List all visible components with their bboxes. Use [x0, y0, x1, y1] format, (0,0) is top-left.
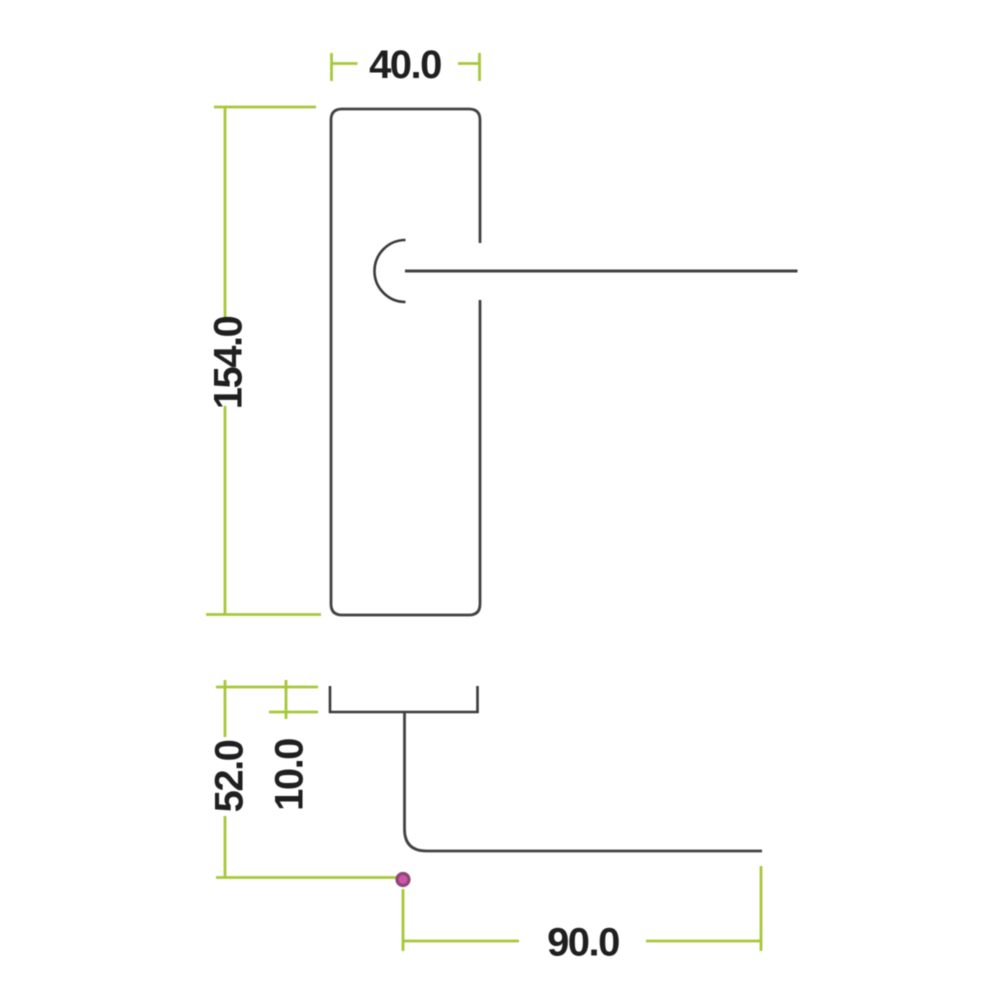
- dim 52.0 bottom extension to datum point: [216, 876, 397, 879]
- keyhole arc (lever boss, C shape): [374, 240, 405, 302]
- dim 52.0 vertical line: [224, 680, 227, 878]
- side view lever drop and curve: [405, 712, 763, 851]
- dim 10.0 vertical line: [285, 680, 288, 719]
- svg-text:90.0: 90.0: [547, 921, 619, 965]
- lever handle line (top view): [405, 270, 798, 273]
- svg-text:154.0: 154.0: [207, 316, 251, 409]
- svg-text:10.0: 10.0: [268, 739, 312, 811]
- dim 154.0 top extension: [214, 106, 316, 109]
- dim 90.0 right extension: [760, 866, 763, 951]
- datum point (magenta dot): [397, 874, 409, 886]
- dim 40.0 horizontal segments: [332, 62, 480, 65]
- dim 90.0 horizontal segments: [403, 940, 761, 943]
- dim 90.0 left extension from datum: [402, 889, 405, 951]
- dim 10.0 bottom tick: [269, 711, 318, 714]
- svg-text:52.0: 52.0: [208, 740, 252, 812]
- dim 154.0 vertical line: [224, 107, 227, 615]
- dim 40.0 end ticks: [332, 53, 480, 81]
- dim 154.0 bottom extension: [206, 613, 321, 616]
- side view channel: [330, 686, 478, 712]
- backplate outline (top view, rounded rectangle with gap on right edge): [331, 109, 480, 615]
- dim 52.0 / 10.0 shared top extension: [216, 686, 318, 689]
- svg-text:40.0: 40.0: [369, 43, 441, 87]
